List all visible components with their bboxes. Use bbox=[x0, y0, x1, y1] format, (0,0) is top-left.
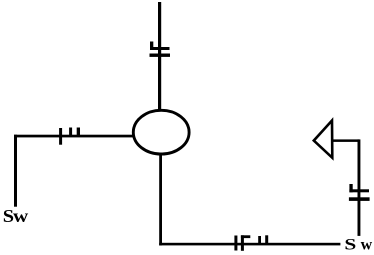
svg-text:w: w bbox=[361, 237, 373, 254]
wire: bottom feeder horizontal bbox=[159, 243, 340, 246]
delta / arrow triangle symbol bbox=[314, 121, 333, 158]
svg-text:w: w bbox=[13, 206, 28, 226]
breaker double-bar symbol (top feeder) bbox=[150, 42, 171, 57]
wire: left feeder drop bbox=[14, 135, 17, 207]
wire: right feeder vertical bbox=[358, 139, 361, 236]
svg-text:S: S bbox=[344, 236, 356, 254]
fuse tick marks (bottom feeder) bbox=[234, 235, 268, 251]
wire: left feeder horizontal bbox=[14, 135, 133, 138]
wire: top feeder vertical bbox=[158, 2, 161, 110]
fuse tick marks (left feeder) bbox=[59, 128, 80, 145]
power source circle U1 bbox=[133, 110, 189, 154]
wire: right feeder horizontal to triangle bbox=[333, 139, 359, 142]
breaker double-bar symbol (right feeder) bbox=[349, 184, 370, 201]
wire: bottom feeder drop from circle bbox=[159, 153, 162, 246]
